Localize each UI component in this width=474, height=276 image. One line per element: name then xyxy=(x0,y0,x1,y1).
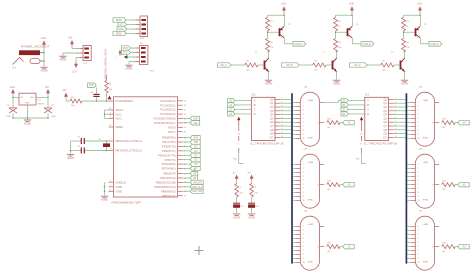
svg-text:GND: GND xyxy=(116,185,122,189)
svg-text:+5V: +5V xyxy=(232,172,236,174)
svg-text:3: 3 xyxy=(303,234,304,236)
svg-text:8: 8 xyxy=(303,192,304,194)
svg-text:+12V: +12V xyxy=(349,4,355,6)
svg-text:PC5(ADC5/SCL): PC5(ADC5/SCL) xyxy=(154,121,176,125)
svg-text:4: 4 xyxy=(418,176,419,178)
svg-text:COM_A: COM_A xyxy=(295,43,304,46)
svg-text:+12V: +12V xyxy=(10,86,16,89)
svg-text:6: 6 xyxy=(418,184,419,186)
svg-text:ATMEGA48/88/168_TQFP: ATMEGA48/88/168_TQFP xyxy=(111,202,141,205)
svg-text:CO: CO xyxy=(383,135,387,139)
svg-text:LHBR: LHBR xyxy=(308,162,314,164)
svg-text:COM_B: COM_B xyxy=(363,44,372,46)
svg-text:AGND: AGND xyxy=(41,70,48,73)
svg-text:A: A xyxy=(254,98,256,102)
svg-text:PC2(ADC2): PC2(ADC2) xyxy=(160,108,175,112)
svg-text:10k: 10k xyxy=(270,47,273,49)
svg-text:Q7: Q7 xyxy=(270,124,274,128)
svg-text:ARDUINO_SERIAL_PGM: ARDUINO_SERIAL_PGM xyxy=(104,50,108,80)
svg-text:6: 6 xyxy=(418,246,419,248)
svg-text:6: 6 xyxy=(395,117,396,119)
svg-text:10k: 10k xyxy=(338,47,341,49)
svg-text:8: 8 xyxy=(303,254,304,256)
svg-text:9: 9 xyxy=(281,129,282,131)
svg-text:LHBR: LHBR xyxy=(423,224,429,226)
svg-text:10k: 10k xyxy=(246,70,249,72)
svg-text:Q1: Q1 xyxy=(270,101,274,105)
svg-text:RHBL: RHBL xyxy=(308,200,314,202)
svg-text:LED_DAT: LED_DAT xyxy=(192,190,203,193)
svg-text:7: 7 xyxy=(281,121,282,123)
svg-text:Q8: Q8 xyxy=(383,128,387,132)
svg-text:D: D xyxy=(254,112,256,116)
svg-text:2: 2 xyxy=(418,168,419,170)
svg-text:AGND: AGND xyxy=(233,216,240,219)
svg-text:4: 4 xyxy=(418,238,419,240)
svg-text:100u: 100u xyxy=(6,116,12,118)
svg-text:PB1(OC1A): PB1(OC1A) xyxy=(160,176,175,180)
svg-text:PD0(RXD): PD0(RXD) xyxy=(162,136,176,140)
svg-text:RXD: RXD xyxy=(193,138,198,140)
svg-text:-12V: -12V xyxy=(72,71,77,74)
svg-text:PD7(AIN1): PD7(AIN1) xyxy=(162,167,176,171)
svg-text:1: 1 xyxy=(395,98,396,100)
svg-text:PB5(SCK): PB5(SCK) xyxy=(162,194,175,198)
svg-text:LED_CLK: LED_CLK xyxy=(192,187,203,189)
svg-text:PB2(SS/OC1B): PB2(SS/OC1B) xyxy=(156,181,176,185)
svg-text:RHBL: RHBL xyxy=(423,262,429,264)
svg-text:RXD: RXD xyxy=(123,48,128,50)
svg-text:Q0: Q0 xyxy=(270,97,274,101)
svg-text:PB0(ICP): PB0(ICP) xyxy=(163,172,175,176)
svg-text:1: 1 xyxy=(303,102,304,104)
svg-text:5: 5 xyxy=(418,118,419,120)
svg-text:Q0: Q0 xyxy=(383,97,387,101)
svg-text:1: 1 xyxy=(418,226,419,228)
svg-text:Q3: Q3 xyxy=(270,109,274,113)
svg-text:SDA: SDA xyxy=(193,117,198,120)
svg-text:RHBL: RHBL xyxy=(308,262,314,264)
svg-text:3: 3 xyxy=(395,106,396,108)
svg-text:5: 5 xyxy=(395,113,396,115)
svg-text:LHBR: LHBR xyxy=(423,162,429,164)
svg-text:2: 2 xyxy=(418,230,419,232)
svg-text:3: 3 xyxy=(418,110,419,112)
svg-text:1: 1 xyxy=(418,102,419,104)
svg-text:+12V: +12V xyxy=(41,37,47,40)
svg-text:+5V: +5V xyxy=(247,172,251,174)
svg-text:4: 4 xyxy=(395,110,396,112)
svg-text:PB3(MOSI/OC2): PB3(MOSI/OC2) xyxy=(154,185,176,189)
svg-text:8: 8 xyxy=(418,192,419,194)
svg-text:10k: 10k xyxy=(406,47,409,49)
svg-text:PD2(INT0): PD2(INT0) xyxy=(162,145,176,149)
svg-text:+5V: +5V xyxy=(68,37,73,40)
svg-text:LED_EN: LED_EN xyxy=(193,182,202,184)
svg-text:11: 11 xyxy=(281,136,283,138)
svg-text:PD6(AIN0): PD6(AIN0) xyxy=(162,162,176,166)
svg-text:8: 8 xyxy=(395,125,396,127)
svg-text:1k: 1k xyxy=(270,26,272,28)
svg-text:4: 4 xyxy=(418,114,419,116)
svg-text:8: 8 xyxy=(418,254,419,256)
svg-text:LHBR: LHBR xyxy=(308,224,314,226)
svg-text:+12V: +12V xyxy=(281,4,287,6)
svg-text:AGND: AGND xyxy=(60,59,67,62)
svg-text:4: 4 xyxy=(303,238,304,240)
svg-text:6: 6 xyxy=(418,122,419,124)
svg-text:POWER_JACKSLOT: POWER_JACKSLOT xyxy=(21,44,50,48)
svg-text:+5V: +5V xyxy=(62,89,67,92)
svg-text:Q2: Q2 xyxy=(270,105,274,109)
svg-text:AGND: AGND xyxy=(265,83,272,86)
svg-text:5: 5 xyxy=(303,242,304,244)
svg-text:SHIELD: SHIELD xyxy=(116,180,126,184)
svg-text:Q1: Q1 xyxy=(383,101,387,105)
svg-text:IC_74HC4017N1-DIP-16: IC_74HC4017N1-DIP-16 xyxy=(250,141,284,145)
svg-text:5: 5 xyxy=(303,180,304,182)
svg-text:7: 7 xyxy=(303,126,304,128)
svg-text:B: B xyxy=(367,103,369,107)
svg-text:B: B xyxy=(254,103,256,107)
svg-text:2: 2 xyxy=(418,106,419,108)
svg-text:AGND: AGND xyxy=(24,122,31,125)
svg-text:GND: GND xyxy=(116,189,122,193)
svg-text:1: 1 xyxy=(303,164,304,166)
svg-text:C: C xyxy=(254,107,256,111)
svg-text:PD3(INT1): PD3(INT1) xyxy=(162,149,176,153)
svg-text:Q3: Q3 xyxy=(383,109,387,113)
svg-text:9: 9 xyxy=(303,196,304,198)
svg-text:+12V: +12V xyxy=(417,4,423,6)
svg-text:+5V: +5V xyxy=(45,86,50,89)
svg-text:PC4(ADC4/SDA): PC4(ADC4/SDA) xyxy=(154,117,176,121)
svg-text:Q4: Q4 xyxy=(383,113,387,117)
svg-text:OUT: OUT xyxy=(30,97,35,99)
svg-text:8: 8 xyxy=(303,130,304,132)
svg-text:5: 5 xyxy=(281,113,282,115)
svg-text:2: 2 xyxy=(303,106,304,108)
svg-text:AGND: AGND xyxy=(248,216,255,219)
svg-text:DTR: DTR xyxy=(89,85,94,87)
svg-text:1: 1 xyxy=(281,98,282,100)
svg-text:5: 5 xyxy=(418,180,419,182)
svg-text:9: 9 xyxy=(418,258,419,260)
svg-text:PC0(ADC0): PC0(ADC0) xyxy=(160,99,175,103)
svg-text:A: A xyxy=(367,98,369,102)
svg-text:7: 7 xyxy=(418,188,419,190)
svg-text:6: 6 xyxy=(303,184,304,186)
svg-text:Q6: Q6 xyxy=(270,120,274,124)
svg-text:ADC6: ADC6 xyxy=(168,125,176,129)
svg-text:6: 6 xyxy=(281,117,282,119)
svg-text:RHBL: RHBL xyxy=(423,138,429,140)
svg-text:7: 7 xyxy=(303,250,304,252)
svg-text:PB6(XTAL1/TOSC1): PB6(XTAL1/TOSC1) xyxy=(116,139,142,143)
svg-text:3: 3 xyxy=(303,110,304,112)
svg-text:Q9: Q9 xyxy=(270,132,274,136)
svg-text:LHBR: LHBR xyxy=(308,100,314,102)
svg-text:4: 4 xyxy=(281,110,282,112)
svg-text:7: 7 xyxy=(418,250,419,252)
svg-text:2: 2 xyxy=(303,168,304,170)
svg-text:9: 9 xyxy=(418,134,419,136)
svg-text:PD4(XCK/T0): PD4(XCK/T0) xyxy=(158,153,176,157)
svg-text:Q5: Q5 xyxy=(270,116,274,120)
svg-text:EN_A: EN_A xyxy=(221,64,227,67)
svg-text:10k: 10k xyxy=(109,89,112,91)
svg-text:SCL: SCL xyxy=(193,123,198,125)
svg-text:Q7: Q7 xyxy=(383,124,387,128)
svg-text:VCC: VCC xyxy=(119,25,124,27)
svg-text:10: 10 xyxy=(281,132,283,134)
svg-text:6: 6 xyxy=(303,122,304,124)
svg-text:TXD: TXD xyxy=(123,53,128,55)
svg-text:11: 11 xyxy=(395,136,397,138)
svg-text:GND: GND xyxy=(25,102,30,104)
svg-text:PB7(XTAL2/TOSC2): PB7(XTAL2/TOSC2) xyxy=(116,149,142,153)
svg-text:7: 7 xyxy=(395,121,396,123)
svg-text:IC2: IC2 xyxy=(251,93,256,97)
svg-text:ADC7: ADC7 xyxy=(168,130,176,134)
svg-text:PB4(MISO): PB4(MISO) xyxy=(161,189,176,193)
svg-text:D: D xyxy=(367,112,369,116)
svg-text:1: 1 xyxy=(418,164,419,166)
svg-text:3: 3 xyxy=(281,106,282,108)
svg-text:Q4: Q4 xyxy=(270,113,274,117)
svg-text:10: 10 xyxy=(303,262,305,264)
svg-text:LHBR: LHBR xyxy=(423,100,429,102)
svg-text:10k: 10k xyxy=(314,70,317,72)
svg-text:2: 2 xyxy=(303,230,304,232)
svg-text:9: 9 xyxy=(418,196,419,198)
svg-text:EN_C: EN_C xyxy=(355,65,361,67)
svg-text:10: 10 xyxy=(303,200,305,202)
svg-text:EN_B: EN_B xyxy=(287,65,293,67)
svg-text:AGND: AGND xyxy=(67,157,74,160)
svg-text:RHBL: RHBL xyxy=(423,200,429,202)
svg-text:MISO: MISO xyxy=(116,34,122,36)
svg-text:10: 10 xyxy=(418,138,420,140)
svg-text:9: 9 xyxy=(303,258,304,260)
svg-text:8: 8 xyxy=(418,130,419,132)
svg-text:3: 3 xyxy=(418,234,419,236)
svg-text:5: 5 xyxy=(418,242,419,244)
svg-text:10: 10 xyxy=(418,200,420,202)
svg-text:7: 7 xyxy=(418,126,419,128)
svg-text:AGND: AGND xyxy=(401,83,408,86)
svg-text:8: 8 xyxy=(281,125,282,127)
svg-text:1k: 1k xyxy=(338,26,340,28)
svg-text:Q8: Q8 xyxy=(270,128,274,132)
svg-text:PD1(TXD): PD1(TXD) xyxy=(162,140,175,144)
svg-text:PC3(ADC3): PC3(ADC3) xyxy=(160,112,175,116)
svg-text:PC6(/RESET): PC6(/RESET) xyxy=(116,99,134,103)
svg-text:PD5(T1): PD5(T1) xyxy=(165,158,176,162)
svg-text:PC1(ADC1): PC1(ADC1) xyxy=(160,103,175,107)
svg-text:10k: 10k xyxy=(382,70,385,72)
svg-text:MOSI: MOSI xyxy=(116,20,122,22)
svg-text:4: 4 xyxy=(303,114,304,116)
svg-text:VCC: VCC xyxy=(116,117,122,121)
svg-text:9: 9 xyxy=(395,129,396,131)
svg-text:3: 3 xyxy=(418,172,419,174)
svg-text:6: 6 xyxy=(303,246,304,248)
svg-text:Q2: Q2 xyxy=(383,105,387,109)
svg-text:5: 5 xyxy=(303,118,304,120)
svg-text:AGND: AGND xyxy=(101,199,108,202)
svg-text:Q9: Q9 xyxy=(383,132,387,136)
svg-text:1: 1 xyxy=(303,226,304,228)
svg-text:C: C xyxy=(367,107,369,111)
svg-text:3: 3 xyxy=(303,172,304,174)
svg-text:10: 10 xyxy=(418,262,420,264)
svg-text:10: 10 xyxy=(303,138,305,140)
svg-text:AGND: AGND xyxy=(126,68,133,71)
svg-text:AREF: AREF xyxy=(116,125,124,129)
svg-text:100u: 100u xyxy=(51,116,57,118)
svg-text:TXD: TXD xyxy=(194,142,199,144)
svg-text:COM_C: COM_C xyxy=(430,44,439,46)
svg-text:7: 7 xyxy=(303,188,304,190)
svg-text:GND: GND xyxy=(118,29,123,31)
svg-text:IC_74HC4017N1-DIP-16: IC_74HC4017N1-DIP-16 xyxy=(364,141,398,145)
svg-text:4: 4 xyxy=(303,176,304,178)
svg-text:AGND: AGND xyxy=(333,83,340,86)
svg-text:Q6: Q6 xyxy=(383,120,387,124)
svg-text:2: 2 xyxy=(395,102,396,104)
svg-text:RHBL: RHBL xyxy=(308,138,314,140)
svg-text:2: 2 xyxy=(281,102,282,104)
svg-text:9: 9 xyxy=(303,134,304,136)
svg-text:78XXS: 78XXS xyxy=(38,104,45,106)
svg-text:CO: CO xyxy=(270,135,274,139)
svg-text:1k: 1k xyxy=(406,26,408,28)
svg-text:10: 10 xyxy=(395,132,397,134)
svg-text:IC3: IC3 xyxy=(365,93,370,97)
svg-text:Q5: Q5 xyxy=(383,116,387,120)
